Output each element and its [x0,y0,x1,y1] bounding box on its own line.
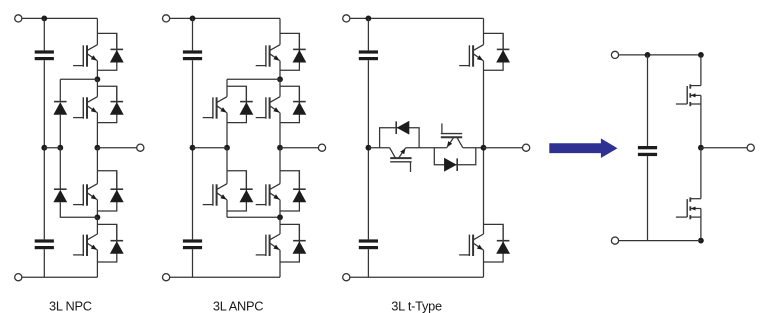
transistor T2 (3L ANPC) [256,97,280,119]
diode D3 (3L t-Type, points right) [444,158,457,172]
wire T2 (3L NPC) emitter [96,113,98,148]
node t-Type top rail / capacitor tap [366,16,372,22]
wire clamp T6 (3L ANPC) collector [226,148,228,184]
wire T3 (3L ANPC) emitter [279,200,281,218]
node 2-level bottom rail / Q2 source node [698,238,704,244]
wire D3 (3L NPC) loop [97,171,116,211]
node NPC T1/T2 node [95,76,101,82]
wire T1 emitter to phase node [483,61,485,148]
node ANPC top rail / capacitor tap [190,16,196,22]
wire D4 (3L ANPC) anode lead [298,224,300,240]
wire D1 (3L ANPC) loop [280,33,299,70]
node ANPC neutral at cap rail [190,145,196,151]
wire D5 (3L ANPC) anode lead [245,86,247,101]
diode D3 (3L ANPC) [293,189,307,202]
transistor Q2 (2-level MOSFET) [676,197,701,219]
wire ANPC phase output lead [280,147,318,149]
terminal DC+ (2-level) [611,51,618,58]
wire T2 (3L ANPC) collector [279,79,281,96]
wire clamp T5 (3L ANPC) emitter [226,113,228,148]
transistor T3 (3L ANPC) [256,184,280,206]
wire ANPC upper cap lead [192,18,194,50]
wire NPC bottom rail [22,276,98,278]
wire t-Type T3 collector to phase node [463,147,484,149]
wire T2 (3L ANPC) emitter [279,113,281,148]
wire D4 anode lead [502,224,504,240]
wire D1 (3L NPC) anode lead [116,33,118,49]
transistor T4 (3L t-Type) [459,234,483,256]
svg-text:3L NPC: 3L NPC [49,299,92,313]
wire 2-level top rail [619,54,701,56]
wire NPC clamp diode D5 anode lead [59,115,61,148]
wire T1 (3L ANPC) emitter [279,61,281,80]
wire NPC phase output lead [97,147,136,149]
wire T2 (3L NPC) collector [96,79,98,96]
wire NPC clamp diode D6 cathode lead [59,148,61,190]
capacitor C2 (3L t-Type) [359,239,378,249]
terminal AC out (2-level) [747,144,754,151]
diode D1 (3L t-Type) [496,49,510,62]
wire D5 (3L ANPC) loop [227,86,246,122]
node 2-level phase node [698,145,704,151]
node NPC top rail / capacitor tap [41,16,47,22]
wire clamp T5 (3L ANPC) collector [226,79,228,96]
transistor T3 (3L t-Type, horizontal) [441,123,463,147]
wire ANPC lower clamp link [227,216,280,218]
wire T3 (3L NPC) collector [96,148,98,184]
wire t-Type common emitter link [406,147,447,149]
wire T1 (3L NPC) collector [96,18,98,44]
transistor Q1 (2-level MOSFET) [676,84,701,106]
node t-Type neutral node [366,145,372,151]
transistor T4 (3L ANPC) [256,234,280,256]
wire Q2 drain lead [700,148,702,199]
wire t-Type phase output lead [484,147,523,149]
transistor clamp T6 (3L ANPC) [203,184,227,206]
wire D3 (3L ANPC) loop [280,171,299,211]
terminal DC+ (3L NPC) [15,15,22,22]
wire D2 (3L NPC) anode lead [116,86,118,101]
arrow (transition to 2-level) [549,138,617,158]
capacitor C2 (3L NPC) [35,239,54,249]
wire NPC cap rail middle [43,60,45,239]
wire T4 (3L ANPC) emitter [279,250,281,277]
wire D4 (3L NPC) loop [97,224,116,262]
wire D2 (3L NPC) loop [97,86,116,122]
transistor T1 (3L NPC) [73,45,97,67]
diode D4 (3L ANPC) [293,241,307,254]
wire t-Type lower cap lead [367,249,369,277]
wire D1 anode lead [502,33,504,49]
wire D1 (3L ANPC) anode lead [298,33,300,49]
node NPC T3/T4 node [95,214,101,220]
wire D2 (3L ANPC) loop [280,86,299,122]
wire NPC upper clamp link [60,78,97,80]
wire T3 (3L ANPC) collector [279,148,281,184]
wire T4 (3L ANPC) collector [279,217,281,234]
terminal AC out (3L ANPC) [318,144,325,151]
node 2-level top rail / Q1 drain node [698,52,704,58]
wire T1 (3L NPC) emitter [96,61,98,80]
diode clamp D5 (3L NPC) [53,102,67,115]
wire D1 loop (3L t-Type) [484,33,504,70]
wire T4 (3L NPC) emitter [96,250,98,277]
wire ANPC upper clamp link [227,78,280,80]
diode D1 (3L NPC) [110,49,124,62]
wire 2-level bottom rail [619,240,701,242]
wire D3 (3L ANPC) anode lead [298,171,300,189]
wire NPC top rail [22,17,98,19]
wire ANPC neutral link [193,147,228,149]
diode D6 (3L ANPC) [240,189,254,202]
transistor T2 (3L NPC) [73,97,97,119]
svg-text:3L t-Type: 3L t-Type [391,299,442,313]
wire D2 loop (3L t-Type) [380,128,420,148]
diode D2 (3L ANPC) [293,102,307,115]
wire D4 (3L NPC) anode lead [116,224,118,240]
wire 2-level phase output lead [701,147,747,149]
wire ANPC lower cap lead [192,249,194,277]
diode D3 (3L NPC) [110,189,124,202]
terminal DC- (3L t-Type) [343,274,350,281]
diode D2 (3L NPC) [110,102,124,115]
wire T4 emitter (3L t-Type) [483,250,485,277]
diode D4 (3L t-Type) [496,241,510,254]
wire D4 (3L ANPC) loop [280,224,299,262]
wire t-Type top rail [350,17,484,19]
transistor T3 (3L NPC) [73,184,97,206]
node NPC phase node [95,145,101,151]
svg-text:3L ANPC: 3L ANPC [213,299,263,313]
wire T4 collector (3L t-Type) [483,148,485,234]
diode D2 (3L t-Type, points left) [396,121,409,135]
capacitor C2 (3L ANPC) [183,239,202,249]
node NPC neutral at clamp column [57,145,63,151]
wire Q1 drain lead [700,55,702,86]
terminal DC- (2-level) [611,237,618,244]
wire NPC neutral link [44,147,60,149]
wire 2-level upper cap lead [647,55,649,146]
wire Q1 source to phase node [700,104,702,148]
terminal DC+ (3L ANPC) [163,15,170,22]
wire t-Type upper cap lead [367,18,369,50]
wire D6 (3L ANPC) loop [227,171,246,211]
wire ANPC bottom rail [170,276,280,278]
wire D6 (3L ANPC) anode lead [245,171,247,189]
capacitor C (2-level) [638,146,657,156]
wire 2-level lower cap lead [647,156,649,241]
diode D4 (3L NPC) [110,241,124,254]
wire ANPC cap rail middle [192,60,194,239]
wire t-Type cap rail middle [367,60,369,239]
node ANPC T3/T4 node [277,214,283,220]
wire T3 (3L NPC) emitter [96,200,98,218]
wire T1 (3L ANPC) collector [279,18,281,44]
terminal DC- (3L NPC) [15,274,22,281]
wire D3 loop (3L t-Type) [434,148,476,165]
wire NPC lower cap lead [43,249,45,277]
node 2-level top rail / capacitor tap [645,52,651,58]
wire NPC clamp diode D5 cathode lead [59,79,61,101]
node NPC neutral at cap rail [41,145,47,151]
wire T4 (3L NPC) collector [96,217,98,234]
wire D1 (3L NPC) loop [97,33,116,70]
wire T1 collector (3L t-Type) [483,18,485,44]
transistor clamp T5 (3L ANPC) [203,97,227,119]
wire D3 (3L NPC) anode lead [116,171,118,189]
node t-Type phase node [481,145,487,151]
transistor T1 (3L t-Type) [459,45,483,67]
wire D2 (3L ANPC) anode lead [298,86,300,101]
terminal AC out (3L t-Type) [523,144,530,151]
terminal DC- (3L ANPC) [163,274,170,281]
wire Q2 source lead [700,217,702,241]
terminal DC+ (3L t-Type) [343,15,350,22]
wire D4 loop (3L t-Type) [484,224,504,262]
wire t-Type bottom rail [350,276,484,278]
wire clamp T6 (3L ANPC) emitter [226,200,228,218]
transistor T2 (3L t-Type, horizontal) [390,148,412,172]
capacitor C1 (3L t-Type) [359,50,378,60]
wire NPC upper cap lead [43,18,45,50]
transistor T1 (3L ANPC) [256,45,280,67]
node ANPC T1/T2 node [277,76,283,82]
diode D1 (3L ANPC) [293,49,307,62]
diode clamp D6 (3L NPC) [53,189,67,202]
diode D5 (3L ANPC) [240,102,254,115]
wire t-Type neutral to T2 collector [368,147,389,149]
wire NPC lower clamp link [60,202,97,217]
wire ANPC top rail [170,17,280,19]
capacitor C1 (3L ANPC) [183,50,202,60]
node ANPC neutral at clamp column [224,145,230,151]
transistor T4 (3L NPC) [73,234,97,256]
terminal AC out (3L NPC) [137,144,144,151]
node ANPC phase node [277,145,283,151]
capacitor C1 (3L NPC) [35,50,54,60]
